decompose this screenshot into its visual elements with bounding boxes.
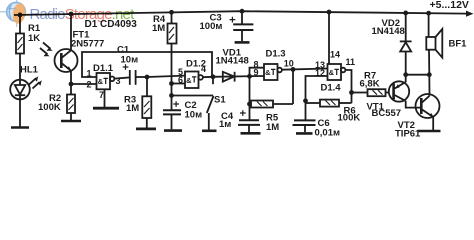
svg-text:&: & — [186, 76, 192, 85]
NAND gate D1.2 — [185, 72, 199, 89]
wire pin 14 to rail — [328, 12, 330, 64]
svg-text:&: & — [265, 68, 271, 77]
wire pin 12 — [306, 76, 328, 101]
svg-text:1M: 1M — [266, 122, 279, 133]
svg-text:6,8K: 6,8K — [360, 79, 380, 90]
svg-text:BF1: BF1 — [449, 39, 468, 50]
wire VT2 collector — [428, 75, 430, 96]
svg-text:&: & — [98, 77, 104, 86]
wire emitter node row — [406, 74, 430, 76]
node S1 branch — [169, 93, 174, 98]
svg-text:7: 7 — [99, 90, 104, 100]
capacitor C2 — [163, 109, 181, 111]
wire FT1 emitter — [70, 71, 72, 84]
node emitter junction — [69, 82, 74, 87]
wire VT2 emitter — [432, 117, 434, 130]
watermark logo globe — [0, 0, 27, 27]
FT1 light arrows — [43, 43, 51, 49]
NAND gate D1.1 — [97, 73, 111, 89]
wire VT1 collector to VT2 base — [406, 101, 422, 108]
svg-text:1м: 1м — [219, 119, 231, 130]
power arrow — [466, 11, 474, 17]
resistor R5 — [273, 103, 293, 105]
capacitor C1 — [129, 70, 131, 85]
svg-text:3: 3 — [116, 76, 121, 86]
node VT1 emitter / VD2 — [403, 72, 408, 77]
svg-text:&: & — [329, 68, 335, 77]
ground R2 — [61, 120, 81, 123]
svg-text:2: 2 — [87, 80, 92, 90]
NAND gate D1.3 — [264, 64, 278, 80]
wire VT1 emitter — [405, 75, 407, 83]
svg-text:1N4148: 1N4148 — [372, 26, 405, 37]
svg-text:1N4148: 1N4148 — [216, 56, 249, 67]
ground C6 — [296, 132, 313, 135]
svg-text:11: 11 — [346, 57, 356, 67]
svg-text:1M: 1M — [152, 23, 165, 34]
resistor R6 — [306, 102, 321, 104]
ground S1 — [202, 130, 217, 133]
svg-text:HL1: HL1 — [20, 65, 39, 76]
resistor R2 — [70, 84, 72, 95]
transistor VT2 — [416, 94, 440, 118]
LED HL1 emission arrows — [29, 78, 36, 84]
svg-text:12: 12 — [315, 68, 325, 78]
svg-text:100м: 100м — [200, 21, 223, 32]
diode VD2 — [405, 52, 407, 75]
capacitor C3 — [241, 11, 243, 24]
phototransistor FT1 — [55, 49, 78, 72]
svg-text:10м: 10м — [185, 110, 203, 121]
wire emitter to D1.1 pin 2 — [71, 83, 97, 85]
svg-text:1M: 1M — [126, 103, 139, 114]
LED HL1 — [10, 80, 30, 100]
ground C2 — [164, 129, 182, 132]
wire pin 6 — [172, 83, 186, 85]
transistor VT1 — [389, 81, 409, 101]
pin number labels — [87, 50, 356, 101]
wire to S1 — [172, 95, 214, 97]
svg-text:RadioStorage.net: RadioStorage.net — [30, 6, 136, 23]
svg-text:S1: S1 — [214, 95, 226, 106]
resistor R1 — [16, 34, 24, 54]
wire R1 top — [19, 15, 21, 34]
capacitor C4 — [239, 119, 259, 121]
svg-text:+5...12V: +5...12V — [430, 0, 469, 11]
svg-text:D1.1: D1.1 — [93, 63, 114, 74]
svg-text:100K: 100K — [38, 102, 61, 113]
resistor R3 — [146, 77, 148, 96]
svg-text:1: 1 — [87, 69, 92, 79]
+ polarity marks — [123, 17, 246, 116]
wire HL1 to ground — [19, 99, 21, 126]
node out 4 — [211, 74, 216, 79]
svg-text:2N5777: 2N5777 — [71, 39, 104, 50]
node FT1/rail — [69, 12, 74, 17]
svg-text:0,01м: 0,01м — [315, 128, 341, 139]
switch S1 — [212, 77, 214, 84]
wire R1 to HL1 — [19, 54, 21, 80]
svg-text:10: 10 — [284, 58, 294, 68]
wire to D1.2 pin 5 — [147, 76, 185, 77]
svg-text:TIP61: TIP61 — [395, 129, 421, 140]
wire R5 column — [292, 69, 294, 104]
svg-text:1K: 1K — [28, 33, 40, 44]
polarity + C4 — [240, 110, 246, 116]
node pin6 — [169, 81, 174, 86]
power rail +5...12V — [14, 11, 466, 15]
wire D1.1 pin 1 feedback loop — [82, 52, 212, 77]
node R7/R6 — [349, 90, 354, 95]
svg-text:D1.4: D1.4 — [321, 83, 342, 94]
node R5 feedback — [291, 67, 296, 72]
diode VD1 — [213, 75, 264, 78]
gate ampersands — [98, 68, 335, 86]
wire out 11 — [345, 70, 351, 103]
resistor R7 — [352, 92, 368, 94]
wire R4 to pin6/C2 — [171, 44, 173, 111]
NAND gate D1.4 — [328, 64, 342, 80]
wire D1.1 out to C1 — [114, 77, 130, 78]
svg-text:100K: 100K — [338, 113, 361, 124]
polarity + C3 — [230, 17, 236, 23]
ground D1.1 pin 7 — [93, 107, 119, 110]
svg-text:4: 4 — [201, 64, 206, 74]
wire D1.2 out — [203, 76, 213, 78]
ground R3 — [136, 127, 156, 130]
wire pin 8 — [250, 68, 265, 77]
svg-text:D1.3: D1.3 — [266, 49, 286, 60]
resistor R4 — [171, 12, 173, 23]
node VT2 collector / BF1 — [427, 72, 432, 77]
node R5/C4 — [247, 102, 252, 107]
node R1/rail — [18, 13, 23, 18]
node D1.3 inputs — [247, 74, 252, 79]
node C1/R3/pin5 — [145, 75, 150, 80]
wire D1.1 pin 7 to ground — [104, 89, 106, 107]
wire C4 column — [249, 76, 251, 120]
svg-text:BC557: BC557 — [372, 108, 402, 119]
ground VT2 — [418, 130, 441, 133]
svg-text:14: 14 — [330, 50, 340, 60]
capacitor C6 — [305, 101, 307, 120]
node C6/R6 — [303, 98, 308, 103]
svg-text:6: 6 — [178, 75, 183, 85]
ground C3 — [235, 41, 250, 44]
ground C4 — [241, 132, 261, 135]
polarity + C1 — [123, 64, 129, 70]
svg-text:10м: 10м — [121, 55, 139, 66]
speaker BF1 — [428, 13, 430, 37]
ground HL1 — [11, 126, 29, 129]
wire FT1 collector — [70, 14, 72, 50]
wire out 10 to pin 13 — [282, 69, 328, 70]
svg-text:9: 9 — [254, 68, 259, 78]
polarity + C2 — [173, 101, 179, 107]
